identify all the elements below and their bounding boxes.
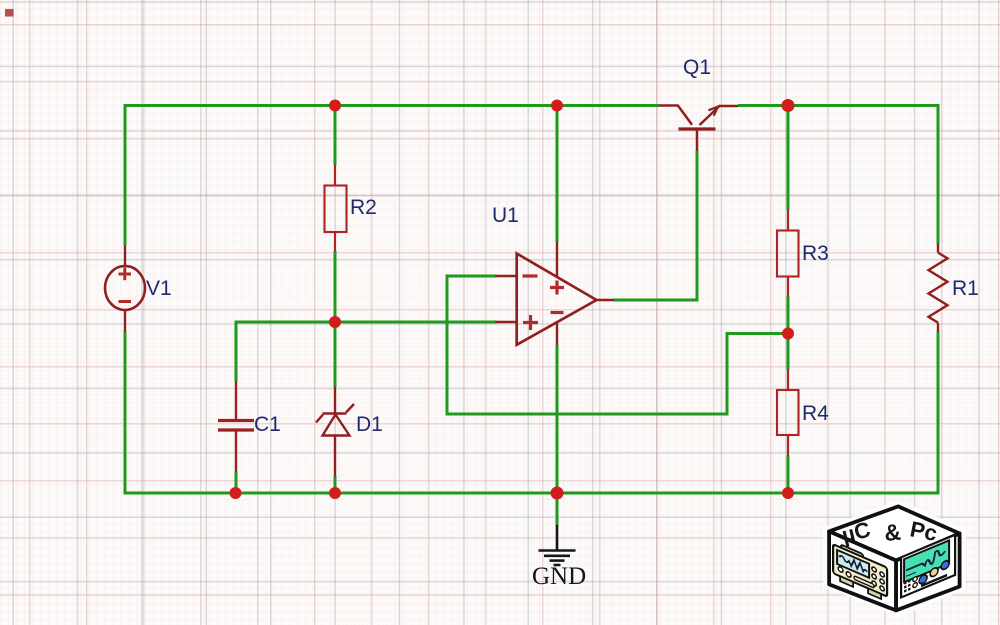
- wire D1 bottom: [334, 476, 337, 493]
- wire top rail right: [738, 104, 938, 107]
- wire op-amp V+ drop: [556, 106, 559, 243]
- junction node bottom R4: [782, 487, 794, 499]
- ground: [539, 525, 576, 565]
- resistor R2: [325, 165, 347, 252]
- wire R3 bottom to node: [787, 296, 790, 334]
- svg-text:V1: V1: [146, 277, 172, 300]
- wire left rail upper: [124, 104, 127, 246]
- wire op-amp V- to bottom rail: [556, 345, 559, 494]
- wire mid node to C1: [236, 322, 335, 382]
- wire left rail lower: [124, 331, 127, 495]
- svg-text:GND: GND: [532, 563, 586, 590]
- logo uC and Pc: [823, 500, 966, 617]
- svg-text:R4: R4: [802, 402, 829, 425]
- svg-text:Q1: Q1: [683, 56, 711, 79]
- junction node bottom GND: [551, 487, 564, 500]
- zener diode D1: [316, 387, 354, 477]
- junction node top R2: [329, 100, 341, 112]
- capacitor C1: [218, 381, 254, 472]
- svg-text:R1: R1: [952, 277, 979, 300]
- wire node to R4 top: [787, 334, 790, 370]
- transistor Q1: [659, 105, 739, 151]
- resistor R3: [777, 209, 799, 297]
- wire R4 bottom: [787, 456, 790, 494]
- wire R3 top drop: [787, 106, 790, 210]
- wire top rail left: [125, 104, 659, 107]
- wire right rail lower: [937, 332, 940, 495]
- op-amp U1: [496, 242, 615, 345]
- voltage source V1: [105, 246, 145, 332]
- svg-text:&: &: [883, 519, 902, 546]
- wire op-amp output to Q1 base: [614, 151, 698, 301]
- resistor R4: [777, 369, 799, 456]
- junction node bottom D1: [329, 487, 341, 499]
- wire R2 bottom to node: [334, 251, 337, 322]
- wire C1 bottom: [235, 472, 238, 494]
- wire D1 top: [334, 322, 337, 387]
- svg-text:D1: D1: [356, 413, 383, 436]
- junction node bottom C1: [230, 487, 242, 499]
- wire bottom rail: [125, 492, 938, 495]
- wire Q1 emitter to node: [738, 104, 788, 107]
- junction node R3 R4 feedback: [782, 328, 794, 340]
- wire mid node to op-amp plus input: [335, 321, 497, 324]
- svg-text:U1: U1: [492, 204, 519, 227]
- wire ground stub: [556, 493, 559, 526]
- wire feedback inverting input: [447, 276, 788, 414]
- svg-text:R3: R3: [802, 242, 829, 265]
- junction node top U1: [551, 100, 563, 112]
- wire R2 top drop: [334, 106, 337, 166]
- svg-text:R2: R2: [350, 196, 377, 219]
- svg-text:C1: C1: [254, 413, 281, 436]
- resistor R1: [929, 244, 948, 333]
- svg-text:Pc: Pc: [908, 516, 939, 546]
- junction node mid R2 D1: [329, 316, 341, 328]
- origin marker: [5, 9, 14, 17]
- wire right rail upper: [937, 104, 940, 244]
- junction node top R3: [782, 99, 795, 112]
